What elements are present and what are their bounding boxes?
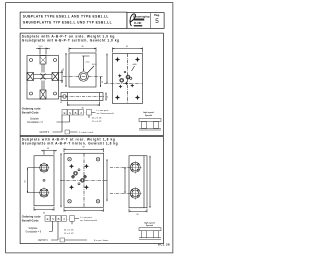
svg-text:CETOP 3: CETOP 3 — [40, 132, 50, 134]
svg-text:B: B — [58, 217, 60, 221]
svg-text:50: 50 — [25, 179, 27, 182]
svg-text:20: 20 — [47, 148, 50, 150]
svg-text:ser. Grössenanschl.: ser. Grössenanschl. — [80, 220, 98, 222]
svg-text:Spezial: Spezial — [145, 115, 152, 117]
svg-text:E: E — [47, 217, 49, 221]
svg-text:Bestell-Code: Bestell-Code — [22, 218, 39, 222]
svg-text:04 = G 1/4: 04 = G 1/4 — [92, 118, 102, 120]
svg-text:B: B — [75, 111, 77, 115]
svg-text:3: 3 — [80, 111, 82, 115]
svg-text:45: 45 — [81, 46, 84, 48]
svg-text:S: S — [69, 111, 71, 115]
svg-text:E: E — [64, 111, 66, 115]
svg-text:Spezial: Spezial — [146, 225, 153, 227]
svg-text:Subplate: Subplate — [29, 227, 39, 230]
svg-text:Rc1/4: Rc1/4 — [92, 64, 97, 66]
svg-text:B = rear / hinten: B = rear / hinten — [94, 239, 108, 242]
svg-text:40: 40 — [43, 212, 46, 214]
svg-text:40: 40 — [81, 108, 84, 110]
svg-text:S: S — [52, 217, 54, 221]
svg-text:23: 23 — [102, 80, 104, 83]
svg-text:15: 15 — [60, 102, 63, 104]
svg-text:Brueninghaus: Brueninghaus — [133, 15, 150, 19]
svg-text:Subplate: Subplate — [30, 118, 40, 121]
svg-text:04 = G 1/4: 04 = G 1/4 — [64, 229, 74, 231]
svg-text:15: 15 — [107, 95, 109, 98]
svg-text:4xM5: 4xM5 — [133, 64, 137, 66]
svg-text:Grundplatte = 3: Grundplatte = 3 — [27, 121, 43, 124]
svg-text:12 = G 1/2: 12 = G 1/2 — [92, 121, 102, 123]
svg-text:FLUID: FLUID — [134, 22, 142, 25]
svg-text:21,5: 21,5 — [86, 62, 91, 64]
svg-text:Bestell-Code: Bestell-Code — [22, 111, 39, 115]
svg-text:21,5: 21,5 — [39, 46, 44, 48]
svg-text:-: - — [68, 218, 69, 221]
svg-text:-: - — [85, 112, 86, 115]
svg-text:ser. Grössenanschl.: ser. Grössenanschl. — [97, 113, 115, 115]
svg-text:20: 20 — [136, 214, 139, 216]
svg-text:46: 46 — [63, 67, 65, 70]
svg-text:L = size ports: L = size ports — [80, 216, 92, 219]
svg-text:CETOP 3: CETOP 3 — [38, 240, 48, 242]
svg-text:Grundplatte = 6: Grundplatte = 6 — [26, 230, 42, 233]
svg-text:31: 31 — [126, 46, 129, 48]
svg-text:high speed: high speed — [144, 222, 155, 224]
svg-text:3: 3 — [63, 217, 65, 221]
svg-text:58: 58 — [82, 147, 85, 149]
svg-text:Ordering code: Ordering code — [22, 107, 41, 111]
svg-text:high speed: high speed — [143, 112, 154, 114]
svg-text:Ordering code: Ordering code — [22, 214, 41, 218]
svg-text:Grundplatte mit A-B-P-T hinten: Grundplatte mit A-B-P-T hinten. Gewicht … — [22, 142, 118, 146]
svg-text:Grundplatte mit A-B-P-T seitli: Grundplatte mit A-B-P-T seitlich. Gewich… — [22, 38, 120, 42]
svg-text:L = size ports: L = size ports — [97, 109, 109, 112]
svg-text:12 = G 1/2: 12 = G 1/2 — [64, 233, 74, 235]
svg-text:3 = dash / strich: 3 = dash / strich — [79, 131, 93, 134]
